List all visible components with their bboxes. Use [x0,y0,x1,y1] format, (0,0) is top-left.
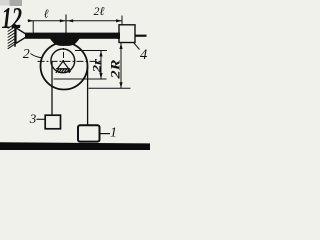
left string to weight 3 [51,62,53,116]
axle support triangle [57,61,68,69]
dimension line 2R [120,43,122,88]
leader line for label 3 [37,118,46,120]
extension line 2r bottom [54,78,107,80]
extension line 2r top [75,50,107,52]
arrowhead 2r top [99,51,102,57]
dimension arrowhead right [116,19,122,22]
leader line for label 4 [134,43,140,50]
extension line at pin [32,21,34,33]
dimension arrowhead left [28,19,33,22]
extension line 2R bottom [89,87,131,89]
rod right of box 4 [135,35,147,37]
svg-text:2ℓ: 2ℓ [94,4,105,18]
dimension line 2r [100,51,102,80]
svg-text:3: 3 [29,111,37,126]
vertical centerline [63,40,65,70]
right string to weight 1 [87,66,89,126]
dimension arrowhead mid-left [60,19,66,22]
weight 3 box [45,115,60,129]
dimension arrowhead mid-right [67,19,73,22]
beam [25,33,120,39]
damper 4 box [119,25,135,43]
arrowhead 2r bottom [99,73,102,79]
svg-text:ℓ: ℓ [44,7,49,21]
bracket bulge under beam [50,38,81,46]
svg-text:2r: 2r [90,59,104,74]
dimension line l and 2l [28,20,122,22]
bottom scan band [0,142,150,150]
extension line at beam right end [121,16,123,26]
wall face line [14,24,16,47]
horizontal centerline [38,60,101,62]
svg-text:2R: 2R [108,60,122,80]
wall hatching [8,24,15,49]
axle center dot [62,60,64,62]
arrowhead 2R top [119,43,122,49]
axle support hatching [56,69,71,73]
arrowhead 2R bottom [119,82,122,88]
pulley 2 outer circle [41,43,88,90]
pulley 2 inner drum circle [51,49,75,73]
svg-text:2: 2 [23,47,30,62]
leader line for label 1 [100,133,111,135]
axle support base line [56,68,70,70]
beam stub into box 4 [117,33,120,39]
svg-text:1: 1 [110,125,117,140]
pin support A triangle [16,28,29,44]
extension line at pulley centerline [65,15,67,34]
leader line for label 2 [31,54,43,58]
scan artifact gray band top-left [0,0,10,6]
svg-text:4: 4 [140,47,147,63]
weight 1 box [78,125,100,141]
